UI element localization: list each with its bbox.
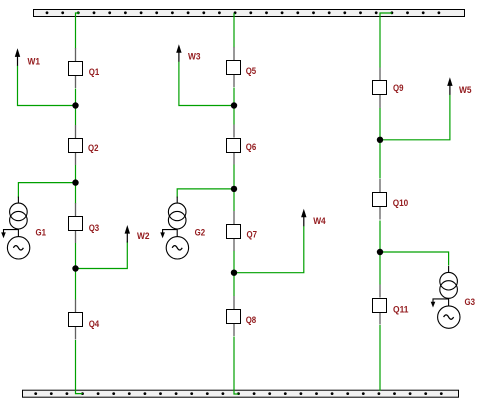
busbar A1 (top) (34, 10, 465, 17)
breaker Q5 (227, 47, 241, 87)
svg-text:W3: W3 (188, 52, 201, 63)
breaker Q9 (373, 68, 387, 109)
wire: feeder 3 top bus tap (380, 13, 392, 68)
node 1-3 junction (72, 265, 78, 271)
svg-text:Q8: Q8 (246, 315, 257, 326)
load arrow W5 (447, 77, 452, 95)
wire: W3 branch to node 2-1 (179, 62, 234, 106)
wire: feeder 3 Q9-Q10 segment (379, 108, 381, 179)
svg-text:Q1: Q1 (89, 67, 100, 78)
breaker Q11 (373, 285, 387, 325)
wire: feeder 2 top bus tap (233, 13, 235, 48)
wire: G1 branch from node 1-2 (18, 183, 75, 198)
svg-text:W2: W2 (137, 231, 150, 242)
wire: feeder 1 Q3-Q4 segment (75, 243, 77, 300)
svg-text:G2: G2 (195, 227, 206, 238)
wire: feeder 1 Q4 to bottom bus (76, 340, 83, 394)
breaker Q7 (227, 211, 241, 251)
breaker Q6 (227, 125, 241, 165)
wire: feeder 2 Q6-Q7 segment (233, 165, 235, 212)
wire: W2 branch to node 1-3 (76, 242, 128, 269)
wire: feeder 1 Q1-Q2 segment (75, 89, 77, 126)
wire: feeder 3 Q10-Q11 segment (379, 221, 381, 285)
wire: feeder 2 Q7-Q8 segment (233, 251, 235, 297)
svg-text:Q10: Q10 (393, 198, 409, 209)
breaker Q3 (69, 203, 83, 243)
svg-text:Q11: Q11 (393, 305, 409, 316)
wire: W1 branch to node 1-1 (18, 66, 76, 106)
wire: feeder 3 Q11 to bottom bus (379, 325, 381, 391)
breaker Q8 (227, 296, 241, 336)
wire: feeder 1 Q2-Q3 segment (75, 165, 77, 204)
node 3-2 junction (377, 249, 383, 255)
wire: G3 branch from node 3-2 (380, 252, 449, 266)
wire: W5 branch to node 3-1 (380, 95, 450, 140)
generator G1 (1, 197, 30, 259)
wire: feeder 2 Q5-Q6 segment (233, 88, 235, 125)
breaker Q4 (69, 300, 83, 340)
svg-text:Q2: Q2 (88, 143, 99, 154)
wire: G2 branch from node 2-2 (177, 189, 234, 198)
node 2-3 junction (231, 270, 237, 276)
load arrow W1 (15, 48, 20, 66)
svg-text:Q9: Q9 (393, 83, 404, 94)
wire: W4 branch to node 2-3 (234, 226, 304, 273)
svg-text:Q6: Q6 (246, 142, 256, 153)
svg-text:G3: G3 (465, 297, 476, 308)
svg-text:W4: W4 (313, 216, 326, 227)
load arrow W3 (176, 44, 181, 62)
load arrow W4 (301, 209, 306, 227)
svg-text:W1: W1 (28, 57, 41, 68)
svg-text:Q4: Q4 (89, 319, 100, 330)
node 1-1 junction (72, 102, 78, 108)
node 2-1 junction (231, 102, 237, 108)
breaker Q2 (69, 125, 83, 165)
svg-text:Q3: Q3 (89, 223, 100, 234)
svg-text:Q5: Q5 (246, 66, 257, 77)
svg-text:W5: W5 (459, 85, 472, 96)
node 3-1 junction (377, 137, 383, 143)
load arrow W2 (125, 225, 130, 243)
breaker Q10 (373, 179, 387, 220)
generator G3 (431, 266, 460, 328)
node 1-2 junction (72, 179, 78, 185)
generator G2 (160, 197, 188, 259)
wire: feeder 2 Q8 to bottom bus (234, 337, 239, 395)
wire: feeder 1 top bus tap (76, 13, 80, 49)
svg-text:Q7: Q7 (247, 230, 258, 241)
node 2-2 junction (231, 186, 237, 192)
breaker Q1 (69, 48, 83, 88)
svg-text:G1: G1 (36, 227, 47, 238)
busbar A2 (bottom) (23, 390, 459, 397)
